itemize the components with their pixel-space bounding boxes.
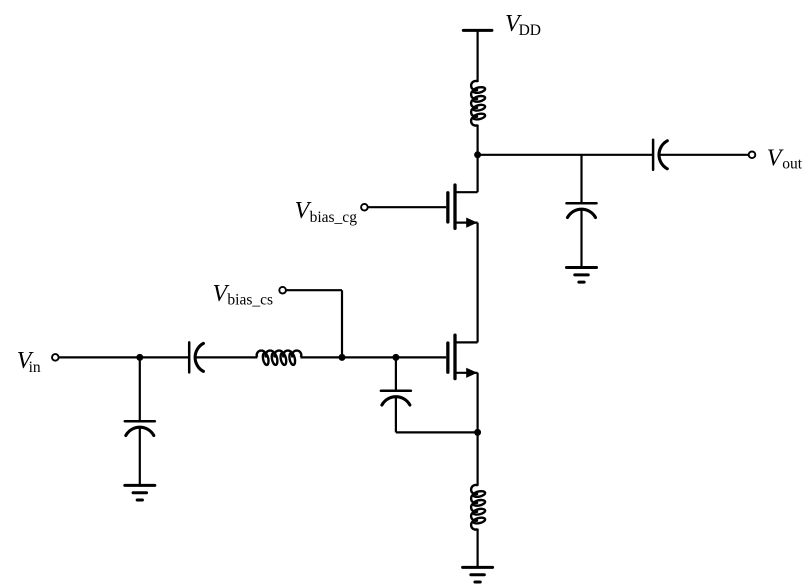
wire M2 drain to node A xyxy=(477,155,479,192)
transistor M2 (cascode common-gate NMOS) xyxy=(448,185,478,228)
capacitor C_gs (external gate-source) xyxy=(381,391,411,405)
inductor Ls (source degeneration) xyxy=(471,485,485,530)
node A (drain of cascode) xyxy=(474,151,481,158)
wire Cgs cap to source node xyxy=(396,431,478,433)
terminal Vin xyxy=(52,354,59,361)
node D (Cgs junction) xyxy=(392,354,399,361)
node C (bias junction) xyxy=(339,354,346,361)
wire input shunt cap to ground xyxy=(139,428,141,486)
wire shunt cap to ground xyxy=(580,210,582,268)
wire node A to output cap xyxy=(478,154,653,156)
wire LD to node A xyxy=(477,125,479,155)
terminal Vbias_cs xyxy=(279,287,286,294)
wire Vbias_cg to M2 gate xyxy=(368,206,446,208)
label Vout xyxy=(767,146,803,173)
wire node D to Cgs cap xyxy=(395,357,397,390)
capacitor C_in (series dc block) xyxy=(189,342,203,372)
svg-text:in: in xyxy=(29,359,41,376)
wire node B to input shunt cap xyxy=(139,357,141,421)
svg-text:DD: DD xyxy=(519,22,541,39)
node B (input shunt junction) xyxy=(136,354,143,361)
capacitor C_shunt_out xyxy=(567,203,597,217)
transistor M1 (common-source NMOS) xyxy=(448,335,478,378)
ground (source) xyxy=(463,567,493,582)
capacitor C_shunt_in xyxy=(125,421,155,435)
label Vin xyxy=(17,348,41,376)
label VDD xyxy=(505,11,541,39)
label Vbias_cs xyxy=(213,281,274,309)
node E (source junction) xyxy=(474,429,481,436)
inductor Lg (gate) xyxy=(257,351,302,366)
wire input cap to Lg xyxy=(196,356,258,358)
wire Lg to M1 gate xyxy=(300,356,446,358)
svg-text:out: out xyxy=(782,156,803,173)
ground (output shunt) xyxy=(567,268,597,283)
wire M1 source to Ls xyxy=(477,373,479,486)
wire output node to shunt cap xyxy=(580,155,582,203)
VDD power symbol xyxy=(463,29,492,32)
inductor LD (drain load) xyxy=(471,81,485,126)
wire VDD to LD xyxy=(477,30,479,82)
wire output cap to Vout terminal xyxy=(660,154,749,156)
wire Vbias_cs vertical to node C xyxy=(341,290,343,357)
ground (input shunt) xyxy=(125,485,155,500)
wire Ls to ground xyxy=(477,529,479,568)
terminal Vout xyxy=(749,152,756,159)
label Vbias_cg xyxy=(295,198,358,226)
wire M2 source to M1 drain xyxy=(477,223,479,343)
wire Vin to input cap xyxy=(59,356,190,358)
svg-text:bias_cs: bias_cs xyxy=(227,292,273,309)
terminal Vbias_cg xyxy=(361,204,368,211)
wire Vbias_cs horizontal xyxy=(286,289,342,291)
capacitor C_out (series dc block) xyxy=(653,140,667,170)
svg-text:bias_cg: bias_cg xyxy=(310,209,358,226)
wire Cgs cap down xyxy=(395,397,397,432)
